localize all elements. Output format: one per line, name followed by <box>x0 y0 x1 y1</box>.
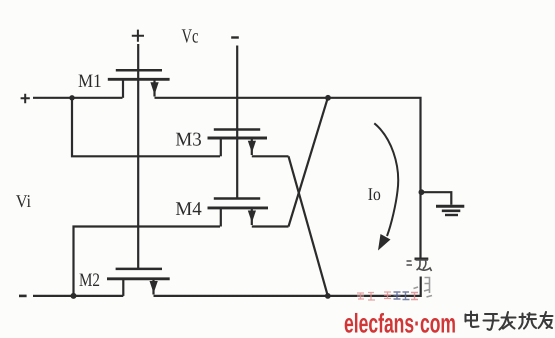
svg-text:M3: M3 <box>175 130 201 151</box>
svg-text:elecfans·com: elecfans·com <box>344 309 456 338</box>
svg-text:Vi: Vi <box>16 191 31 211</box>
svg-text:M2: M2 <box>79 270 100 291</box>
svg-text:M4: M4 <box>175 199 202 220</box>
svg-text:Io: Io <box>368 184 381 204</box>
svg-text:M1: M1 <box>78 71 102 92</box>
svg-text:Vc: Vc <box>182 26 199 48</box>
